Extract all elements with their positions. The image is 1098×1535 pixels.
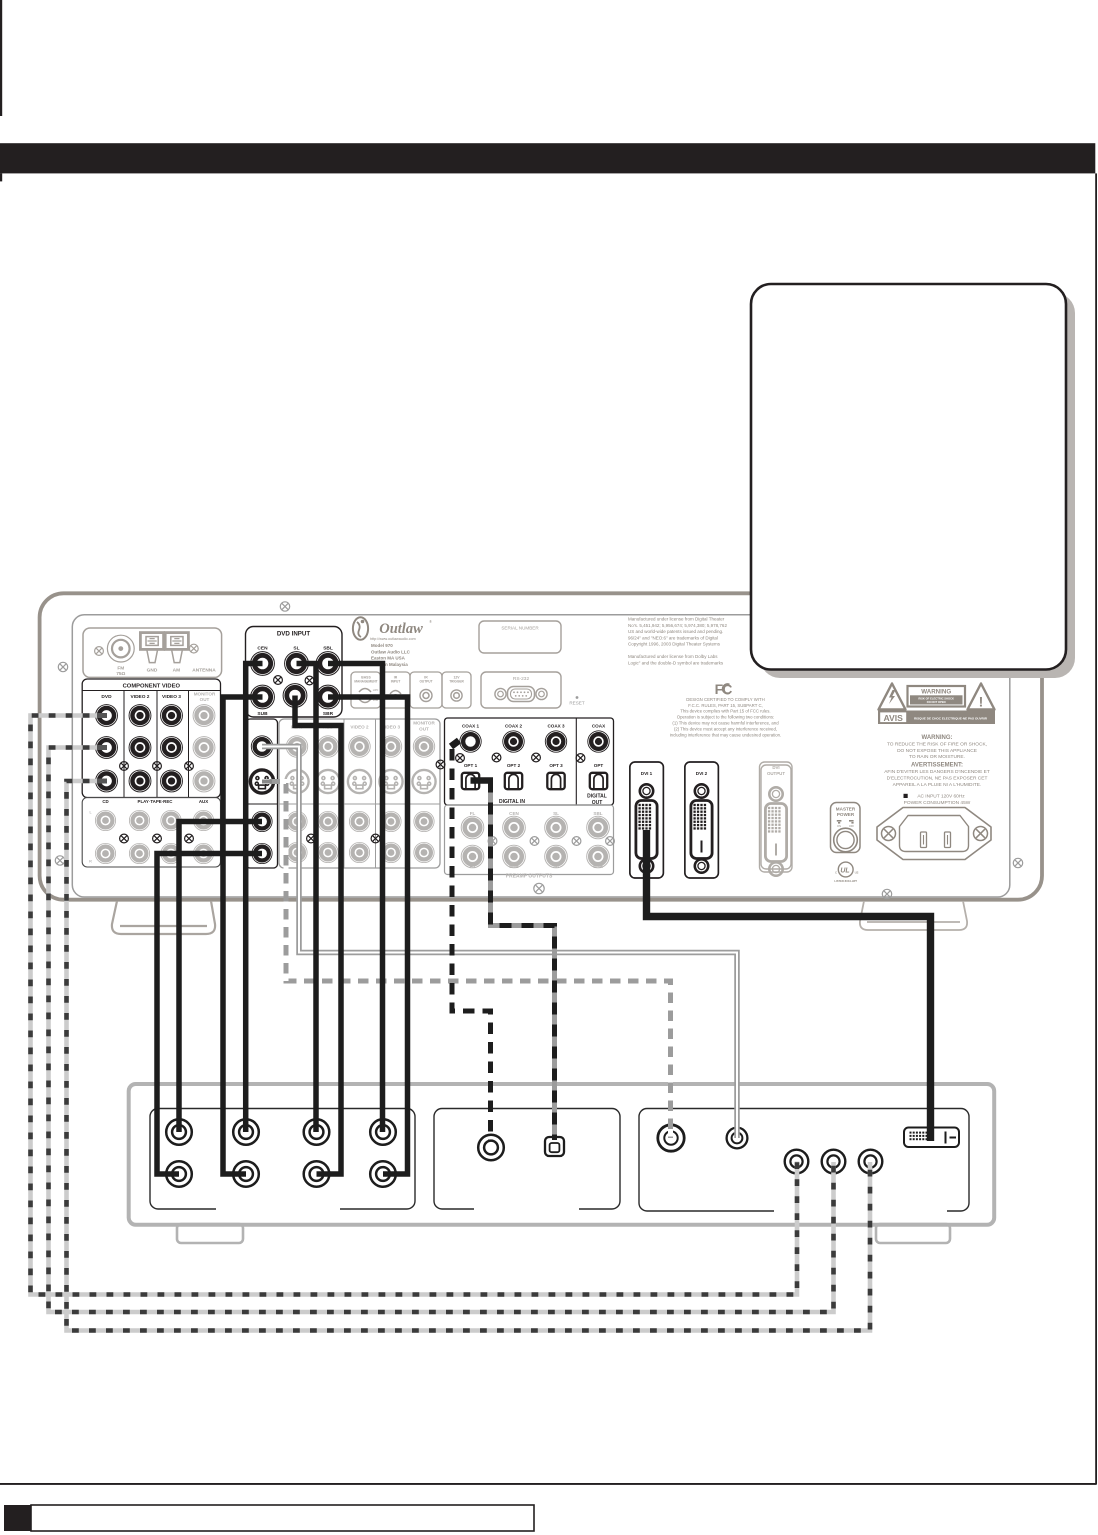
svg-text:RISK OF ELECTRIC SHOCK: RISK OF ELECTRIC SHOCK: [918, 696, 954, 700]
svg-text:PREAMP OUTPUTS: PREAMP OUTPUTS: [506, 874, 553, 880]
svg-text:CEN: CEN: [257, 646, 268, 652]
DVD input jacks CEN SL SBL: [251, 652, 275, 676]
DVD input screws: [274, 676, 283, 685]
svg-text:ON: ON: [837, 824, 841, 828]
svg-text:R: R: [89, 860, 92, 864]
svg-text:AVIS: AVIS: [883, 713, 903, 723]
svg-text:VIDEO 2: VIDEO 2: [350, 725, 369, 730]
DVD input jacks SUB SR SBR: [251, 685, 275, 709]
svg-text:WARNING: WARNING: [921, 689, 951, 696]
receiver foot left: [112, 901, 215, 934]
svg-text:OPT 3: OPT 3: [549, 763, 563, 768]
svg-text:DVI: DVI: [772, 765, 779, 770]
svg-text:FC: FC: [715, 681, 733, 697]
svg-text:Manufactured under license fro: Manufactured under license from Digital …: [628, 617, 725, 622]
dvd player foot right: [876, 1224, 950, 1243]
cable SBR: [328, 697, 408, 1174]
svg-text:AFIN D'EVITER LES DANGERS D'IN: AFIN D'EVITER LES DANGERS D'INCENDIE ET: [884, 769, 990, 775]
RS-232 DB9 connector: [495, 687, 547, 702]
audio inputs box: [82, 798, 220, 868]
svg-text:HPF: HPF: [373, 688, 379, 692]
svg-text:DVD INPUT: DVD INPUT: [277, 631, 311, 638]
footer page number block: [4, 1505, 31, 1531]
svg-text:DO NOT OPEN: DO NOT OPEN: [927, 700, 946, 704]
svg-text:No's. 5,451,942; 5,956,674; 5,: No's. 5,451,942; 5,956,674; 5,974,380; 5…: [628, 623, 727, 628]
FM 75ohm coax connector: [107, 635, 134, 662]
dvd player shell: [129, 1084, 995, 1225]
svg-text:AVERTISSEMENT:: AVERTISSEMENT:: [911, 763, 963, 769]
DVI 1 connector: [630, 762, 664, 878]
svg-text:FR: FR: [469, 864, 476, 869]
title bar: [0, 143, 1095, 173]
svg-text:PLAY·TAPE·REC: PLAY·TAPE·REC: [138, 799, 174, 804]
dvd DVI port: [904, 1128, 959, 1148]
receiver inner panel: [72, 615, 1010, 897]
dvd video box: [639, 1109, 969, 1212]
AV column x=297: [286, 736, 307, 757]
coax jacks: [460, 731, 481, 752]
cable DVI: [647, 830, 931, 1141]
svg-text:SBR: SBR: [323, 711, 334, 717]
component Y cable: [31, 716, 798, 1295]
svg-text:OPT 1: OPT 1: [464, 763, 478, 768]
warning triangle exclamation: [968, 684, 995, 710]
bass management box: [351, 672, 381, 708]
svg-text:UL: UL: [840, 868, 849, 875]
dvd optical connector: [545, 1137, 564, 1156]
svg-text:VIDEO 2: VIDEO 2: [131, 694, 150, 700]
cable CEN: [246, 664, 263, 1133]
svg-text:MONITOR: MONITOR: [413, 721, 435, 726]
svg-text:(2) This device must accept an: (2) This device must accept any interfer…: [674, 726, 777, 731]
IR output box: [410, 672, 442, 708]
svg-text:DVI 2: DVI 2: [696, 771, 708, 776]
cable coax digital (black dashed): [451, 741, 491, 1142]
svg-text:COAX 1: COAX 1: [462, 724, 480, 729]
svg-text:TO REDUCE THE RISK OF FIRE OR: TO REDUCE THE RISK OF FIRE OR SHOCK,: [887, 741, 987, 747]
svg-text:OUT: OUT: [200, 697, 210, 702]
cable audio L: [179, 822, 262, 1133]
DVD AV column box: [246, 719, 278, 868]
RS-232 box: [481, 672, 561, 708]
DVD INPUT box: [246, 627, 343, 718]
dvd analog box: [150, 1109, 415, 1210]
svg-text:OPT: OPT: [594, 763, 604, 768]
svg-text:F.C.C. RULES, PART 15, SUBPART: F.C.C. RULES, PART 15, SUBPART C,: [688, 703, 763, 708]
optical connectors: [462, 773, 479, 789]
AC inlet screws: [882, 827, 896, 841]
GND spring terminal: [140, 633, 163, 663]
AM spring terminal: [165, 633, 188, 663]
svg-text:Outlaw Audio LLC: Outlaw Audio LLC: [371, 649, 411, 654]
svg-text:D'ELECTROCUTION, NE PAS EXPOSE: D'ELECTROCUTION, NE PAS EXPOSER CET: [887, 776, 988, 782]
IR input box: [381, 672, 411, 708]
video cable (gray) DVD column to dvd player: [262, 747, 737, 1139]
svg-text:CD: CD: [102, 799, 108, 804]
preamp jack row y=856.5: [461, 845, 484, 868]
svg-text:DVI 1: DVI 1: [641, 771, 653, 776]
svg-text:OFF: OFF: [849, 824, 855, 828]
audio jack row y=820.5: [95, 810, 115, 830]
dvd analog jack col 383: [370, 1119, 396, 1145]
svg-text:!: !: [979, 694, 984, 710]
digital inputs box: [445, 718, 614, 805]
component video jack row 1: [96, 705, 118, 727]
svg-text:INPUT: INPUT: [391, 680, 401, 684]
serial number box: [479, 621, 561, 653]
svg-text:SL: SL: [553, 811, 559, 816]
svg-text:SUB: SUB: [509, 864, 519, 869]
DVD column audio jacks: [252, 811, 272, 831]
svg-text:WARNING:: WARNING:: [922, 735, 953, 741]
svg-text:POWER CONSUMPTION 45W: POWER CONSUMPTION 45W: [904, 800, 971, 806]
AV column x=424: [413, 736, 434, 757]
AC power inlet: [877, 808, 991, 860]
svg-text:OPT 2: OPT 2: [507, 763, 521, 768]
svg-text:DVD: DVD: [101, 694, 112, 700]
coax screws: [456, 754, 465, 763]
svg-text:DO NOT EXPOSE THIS APPLIANCE: DO NOT EXPOSE THIS APPLIANCE: [897, 748, 977, 754]
svg-text:SBL: SBL: [593, 811, 602, 816]
svg-text:POWER: POWER: [837, 812, 855, 817]
cable SUB: [223, 697, 263, 1174]
screw bottom lip: [882, 889, 891, 898]
svg-text:Model 970: Model 970: [371, 643, 393, 648]
reset: [576, 696, 579, 699]
screw top lip: [280, 602, 289, 611]
svg-text:FM: FM: [117, 666, 124, 672]
page bottom rule: [0, 1483, 1097, 1485]
cable SBL: [328, 664, 383, 1133]
svg-text:96/24" and "NEO:6" are tradema: 96/24" and "NEO:6" are trademarks of Dig…: [628, 635, 718, 640]
Outlaw logo: [353, 617, 368, 640]
AV screws: [307, 834, 316, 843]
screw antenna right: [189, 644, 198, 653]
svg-text:LISTED 8X34-HP7: LISTED 8X34-HP7: [834, 879, 857, 883]
component cable plugs: [97, 713, 107, 784]
antenna section box: [83, 628, 222, 677]
receiver outer shell: [40, 593, 1042, 899]
svg-text:Easton MA USA: Easton MA USA: [371, 656, 406, 661]
preamp outputs box: [445, 805, 614, 875]
svg-text:FL: FL: [470, 811, 476, 816]
svg-text:Outlaw: Outlaw: [379, 621, 423, 637]
AV inputs box: [279, 719, 440, 868]
svg-text:SERIAL NUMBER: SERIAL NUMBER: [501, 626, 539, 631]
screw left lip lower: [55, 856, 64, 865]
svg-text:us: us: [855, 871, 859, 875]
svg-text:Operation is subject to the fo: Operation is subject to the following tw…: [677, 715, 774, 720]
svg-text:RS-232: RS-232: [513, 676, 530, 682]
svg-text:http://www.outlawaudio.com: http://www.outlawaudio.com: [370, 637, 416, 641]
svg-text:TO RAIN OR MOISTURE.: TO RAIN OR MOISTURE.: [909, 754, 965, 760]
svg-text:OUTPUT: OUTPUT: [767, 771, 785, 776]
svg-text:Copyright 1996, 2003 Digital T: Copyright 1996, 2003 Digital Theater Sys…: [628, 642, 721, 647]
callout shadow: [760, 293, 1075, 678]
svg-text:SR: SR: [553, 864, 560, 869]
warning triangle lightning: [879, 684, 906, 710]
svg-text:CEN: CEN: [509, 811, 519, 816]
component video jack row 3: [96, 770, 118, 792]
preamp jack row y=827.5: [461, 816, 484, 839]
AV column x=391: [380, 736, 401, 757]
svg-text:including interference that ma: including interference that may cause un…: [670, 732, 782, 737]
svg-text:US and world-wide patents issu: US and world-wide patents issued and pen…: [628, 629, 723, 634]
component video jack row 2: [96, 737, 118, 759]
12V trigger box: [442, 672, 471, 708]
dvd video rca jack: [727, 1128, 748, 1149]
warning text box: [908, 686, 966, 707]
svg-text:MONITOR: MONITOR: [194, 691, 216, 696]
svg-text:This device complies with Part: This device complies with Part 15 of FCC…: [680, 709, 770, 714]
svg-text:DIGITAL IN: DIGITAL IN: [499, 799, 525, 805]
page crop mark right: [1095, 173, 1097, 1484]
dvd component jacks: [785, 1150, 809, 1174]
svg-text:OUTPUT: OUTPUT: [419, 680, 432, 684]
dvd analog jack col 316.5: [304, 1119, 330, 1145]
svg-text:OUT: OUT: [419, 727, 429, 732]
screw below preamp: [534, 883, 544, 893]
svg-text:GND: GND: [147, 668, 158, 674]
screw left lip upper: [58, 662, 67, 671]
svg-text:DESIGN CERTIFIED TO COMPLY WIT: DESIGN CERTIFIED TO COMPLY WITH: [686, 697, 764, 702]
component Pb cable: [49, 748, 834, 1313]
svg-text:APPAREIL A LA PLUIE NI A L'HUM: APPAREIL A LA PLUIE NI A L'HUMIDITE.: [893, 782, 982, 788]
cable SR: [295, 696, 341, 1175]
svg-text:RISQUE DE CHOC ELECTRIQUE·NE P: RISQUE DE CHOC ELECTRIQUE·NE PAS OUVRIR: [914, 716, 988, 720]
dvd coax jack: [478, 1135, 504, 1161]
svg-text:c: c: [835, 871, 837, 875]
svg-text:ANTENNA: ANTENNA: [192, 668, 216, 674]
screw antenna left: [95, 647, 104, 656]
audio jack row y=853.5: [95, 843, 115, 863]
dvd analog jack col 179: [166, 1119, 192, 1145]
cable SL: [297, 664, 317, 1133]
svg-text:MANAGEMENT: MANAGEMENT: [354, 680, 377, 684]
cable optical (black/gray dashed): [471, 777, 494, 783]
preamp screws: [488, 837, 497, 846]
dvd player foot left: [177, 1224, 243, 1243]
svg-text:VIDEO 3: VIDEO 3: [162, 694, 181, 700]
svg-text:AUX: AUX: [199, 799, 208, 804]
UL logo: [838, 862, 853, 877]
svg-text:COMPONENT VIDEO: COMPONENT VIDEO: [123, 684, 181, 690]
DVD column video jack: [251, 736, 272, 757]
master power switch: [831, 803, 861, 853]
dvd analog jack col 246: [233, 1119, 259, 1145]
svg-text:SL: SL: [293, 646, 299, 652]
component Pr cable: [67, 781, 871, 1331]
svg-text:SUB: SUB: [257, 711, 268, 717]
footer title box: [31, 1505, 534, 1531]
AC input text: [904, 794, 908, 798]
svg-text:AC INPUT 120V 60Hz: AC INPUT 120V 60Hz: [917, 794, 965, 800]
AV column x=359.5: [349, 736, 370, 757]
DVD column s-video jack: [250, 770, 273, 793]
svg-text:TRIGGER: TRIGGER: [449, 680, 464, 684]
svg-text:(1) This device may not cause: (1) This device may not cause harmful in…: [672, 721, 779, 726]
dvd digital box: [434, 1109, 620, 1210]
svg-text:SBL: SBL: [323, 646, 333, 652]
audio screws: [120, 834, 129, 843]
screw right lip: [1013, 858, 1022, 867]
svg-text:Manufactured under license fro: Manufactured under license from Dolby La…: [628, 654, 718, 659]
AVIS bar: [878, 711, 995, 725]
svg-text:AM: AM: [173, 668, 180, 674]
s-video cable (gray/white dash): [262, 782, 671, 1139]
svg-text:COAX 3: COAX 3: [547, 724, 565, 729]
dvd s-video jack: [658, 1125, 684, 1151]
DVI OUTPUT connector: [760, 762, 793, 872]
svg-text:®: ®: [429, 620, 432, 624]
svg-text:L: L: [89, 811, 91, 815]
callout box: [751, 284, 1066, 670]
svg-text:MASTER: MASTER: [836, 807, 856, 812]
component screws: [120, 762, 129, 771]
svg-text:SBR: SBR: [593, 864, 603, 869]
component video dividers: [124, 691, 189, 798]
svg-text:COAX 2: COAX 2: [505, 724, 523, 729]
svg-text:RESET: RESET: [569, 701, 585, 706]
cable audio R: [157, 854, 262, 1175]
receiver foot right: [860, 901, 967, 930]
svg-text:75Ω: 75Ω: [116, 671, 125, 677]
svg-text:DIGITAL: DIGITAL: [587, 794, 607, 800]
DVI 2 connector: [685, 762, 719, 878]
svg-text:COAX: COAX: [592, 724, 606, 729]
component video box: [82, 679, 220, 798]
page crop mark top-left: [0, 0, 2, 116]
svg-text:Logic" and the double-D symbol: Logic" and the double-D symbol are trade…: [628, 661, 724, 666]
AV column x=328: [317, 736, 338, 757]
